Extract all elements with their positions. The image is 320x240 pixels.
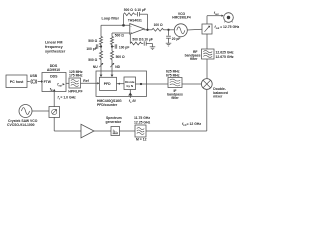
svg-text:500 Ω: 500 Ω: [124, 8, 133, 12]
svg-text:625 MHz: 625 MHz: [166, 69, 180, 73]
svg-text:12.25 GHz: 12.25 GHz: [134, 121, 151, 125]
svg-text:THS4031: THS4031: [128, 19, 142, 23]
svg-text:filter: filter: [171, 96, 179, 100]
svg-text:CVCSO-914-1000: CVCSO-914-1000: [7, 123, 35, 127]
svg-text:NU: NU: [93, 65, 98, 69]
svg-text:out: out: [58, 84, 62, 87]
svg-text:= 12.75 GHz: = 12.75 GHz: [220, 25, 239, 29]
svg-text:DDS: DDS: [50, 74, 58, 78]
svg-text:100 Ω: 100 Ω: [154, 23, 163, 27]
svg-text:M = 12: M = 12: [136, 138, 147, 142]
svg-text:by N: by N: [126, 84, 133, 88]
svg-text:500 Ω: 500 Ω: [132, 37, 141, 41]
svg-text:USB: USB: [30, 74, 38, 78]
svg-text:= 12 GHz: = 12 GHz: [187, 122, 202, 126]
svg-text:500 Ω: 500 Ω: [116, 55, 125, 59]
svg-text:100 pF: 100 pF: [86, 47, 96, 51]
svg-text:ND: ND: [115, 65, 120, 69]
svg-text:= 1.0 GHz: = 1.0 GHz: [60, 96, 76, 100]
svg-text:/N: /N: [131, 99, 136, 103]
svg-text:out: out: [216, 27, 220, 30]
svg-text:Loop filter: Loop filter: [102, 17, 120, 21]
svg-text:500 Ω: 500 Ω: [88, 39, 97, 43]
svg-text:PC host: PC host: [10, 80, 24, 84]
svg-text:675 MHz: 675 MHz: [166, 74, 180, 78]
svg-text:175 MHz: 175 MHz: [69, 74, 83, 78]
svg-text:filter: filter: [190, 57, 198, 61]
svg-text:PFD/counter: PFD/counter: [97, 103, 118, 107]
svg-text:generator: generator: [106, 120, 122, 124]
svg-text:synthesizer: synthesizer: [45, 50, 66, 54]
svg-text:100 pF: 100 pF: [119, 46, 129, 50]
svg-text:out: out: [215, 13, 219, 16]
svg-text:500 Ω: 500 Ω: [115, 33, 124, 37]
svg-text:AD9910: AD9910: [47, 68, 60, 72]
svg-text:12.675 GHz: 12.675 GHz: [216, 55, 234, 59]
svg-text:PFD: PFD: [104, 82, 111, 86]
svg-text:20 pF: 20 pF: [172, 37, 181, 41]
svg-text:FTW: FTW: [44, 80, 52, 84]
svg-text:HMC398LP4: HMC398LP4: [172, 16, 191, 20]
svg-text:frequency: frequency: [45, 45, 64, 49]
svg-text:0.10 µF: 0.10 µF: [142, 37, 153, 41]
svg-text:11.75 GHz: 11.75 GHz: [134, 116, 150, 120]
svg-text:mixer: mixer: [213, 95, 223, 99]
svg-text:500 Ω: 500 Ω: [88, 58, 97, 62]
svg-text:Linear FM: Linear FM: [45, 41, 62, 45]
svg-text:Ref: Ref: [83, 79, 89, 83]
svg-text:HPF/LPF: HPF/LPF: [68, 90, 82, 94]
svg-text:0.10 µF: 0.10 µF: [135, 8, 146, 12]
